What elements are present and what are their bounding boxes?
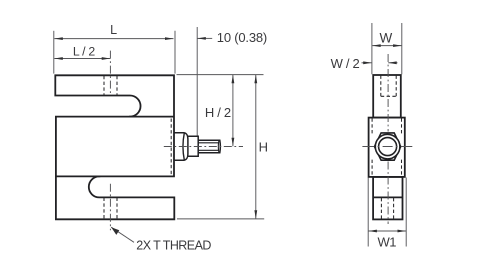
- svg-text:H / 2: H / 2: [205, 105, 231, 120]
- svg-text:W1: W1: [377, 234, 396, 249]
- svg-text:W: W: [380, 30, 393, 45]
- svg-text:10 (0.38): 10 (0.38): [217, 30, 267, 45]
- svg-text:L: L: [110, 23, 117, 37]
- svg-text:2X T THREAD: 2X T THREAD: [136, 238, 211, 252]
- svg-text:H: H: [259, 139, 268, 154]
- svg-text:W / 2: W / 2: [331, 56, 360, 71]
- svg-text:L / 2: L / 2: [73, 45, 95, 59]
